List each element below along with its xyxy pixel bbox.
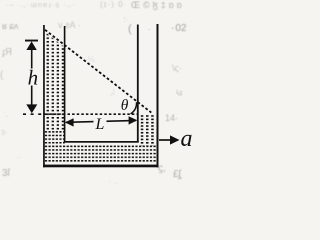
- svg-text:·‸: ·‸: [3, 108, 9, 117]
- svg-text:(: (: [128, 23, 132, 35]
- svg-text:·– ·‥·ɯneɹ·s̤ ·‥·: ·– ·‥·ɯneɹ·s̤ ·‥·: [6, 0, 76, 9]
- outer left wall: [43, 25, 45, 167]
- dimension h: down arrowhead: [26, 104, 37, 113]
- svg-text:ιۍ: ιۍ: [176, 87, 183, 96]
- label h (with gap in line): [27, 69, 38, 86]
- acceleration arrow line: [159, 139, 171, 141]
- svg-text:L: L: [95, 116, 105, 133]
- page background: [0, 0, 202, 186]
- tank bottom: [43, 165, 158, 168]
- svg-text:ʁ ɕʌ: ʁ ɕʌ: [2, 21, 19, 31]
- svg-text:¼: ¼: [88, 55, 95, 64]
- outer right wall: [157, 24, 159, 167]
- svg-text:· ‥: · ‥: [108, 177, 118, 186]
- svg-text:ا٫: ا٫: [110, 88, 115, 97]
- svg-text:ɜ·: ɜ·: [1, 127, 8, 137]
- svg-text:.: .: [148, 22, 151, 32]
- svg-text:\ς·: \ς·: [172, 63, 182, 73]
- dimension L: horizontal line: [66, 121, 136, 123]
- angle arc: [131, 102, 137, 114]
- label L (with gap in line): [94, 116, 107, 130]
- inner left wall: [64, 26, 66, 143]
- svg-text:h: h: [28, 66, 38, 90]
- svg-text:؛·: ؛·: [123, 15, 128, 24]
- level dotted line (right arm surface level, extended left): [23, 113, 43, 115]
- svg-text:‥: ‥: [16, 150, 22, 160]
- dimension L: left arrowhead: [65, 118, 74, 126]
- inner right wall: [137, 25, 139, 143]
- svg-text:θ: θ: [121, 97, 129, 114]
- liquid (dotted fill): left arm lower part: [45, 130, 65, 146]
- svg-text:ϛ,: ϛ,: [158, 163, 166, 174]
- acceleration arrowhead: [170, 135, 180, 144]
- dimension h: up arrowhead: [26, 41, 36, 50]
- svg-text:£ʃ̧: £ʃ̧: [173, 169, 182, 180]
- dimension h: top cap bar: [25, 40, 38, 42]
- liquid (dotted fill): bottom channel: [45, 145, 157, 163]
- svg-text:14·: 14·: [165, 113, 178, 123]
- inner bottom line: [64, 141, 139, 143]
- bleed-through ghost text top row: [0, 0, 187, 186]
- dimension L: right arrowhead: [129, 116, 138, 124]
- tilted liquid surface (dashed diagonal): [45, 30, 151, 113]
- liquid (dotted fill): right arm: [139, 115, 156, 146]
- svg-text:v ƨA ·: v ƨA ·: [58, 20, 81, 30]
- svg-text:٠02: ٠02: [170, 23, 187, 34]
- svg-text:ɟЯ: ɟЯ: [2, 47, 12, 58]
- svg-text:3ſ: 3ſ: [2, 168, 11, 179]
- liquid (dotted fill): left arm below tilted surface: [45, 32, 65, 130]
- dimension h: vertical line: [31, 50, 33, 106]
- svg-text:(ɪ·) 0·: (ɪ·) 0·: [100, 0, 127, 9]
- svg-text:Œ©ɮ‡ɒɒ: Œ©ɮ‡ɒɒ: [131, 0, 185, 10]
- svg-text:a: a: [181, 126, 193, 152]
